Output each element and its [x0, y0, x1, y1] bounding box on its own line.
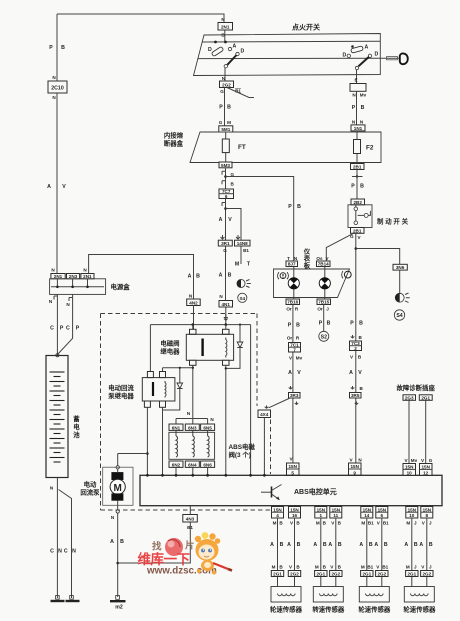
svg-text:6: 6	[225, 194, 228, 199]
svg-text:2B2: 2B2	[353, 200, 362, 205]
svg-text:6: 6	[381, 513, 384, 518]
svg-text:N: N	[187, 411, 191, 416]
svg-text:B: B	[429, 542, 433, 548]
svg-text:内接熔: 内接熔	[164, 131, 184, 140]
svg-text:M: M	[227, 120, 231, 125]
svg-text:B: B	[358, 355, 362, 360]
svg-text:V: V	[358, 235, 362, 240]
svg-text:15N: 15N	[317, 507, 326, 512]
svg-text:2G1: 2G1	[421, 395, 430, 400]
svg-text:B: B	[228, 273, 232, 279]
svg-text:B: B	[297, 204, 301, 210]
svg-text:G: G	[220, 89, 224, 94]
svg-text:2G1: 2G1	[407, 572, 416, 577]
svg-text:M: M	[114, 483, 122, 494]
svg-text:S2: S2	[321, 335, 327, 341]
svg-text:轮速传感器: 轮速传感器	[270, 605, 303, 614]
svg-text:P: P	[350, 321, 354, 327]
svg-text:B: B	[323, 542, 327, 548]
svg-text:V: V	[331, 521, 335, 526]
svg-text:Mv: Mv	[296, 356, 303, 361]
svg-text:P: P	[351, 184, 355, 190]
svg-text:G: G	[429, 458, 433, 463]
svg-text:T: T	[287, 256, 290, 261]
svg-text:5M3: 5M3	[221, 163, 230, 168]
svg-text:2B1: 2B1	[353, 228, 362, 233]
svg-text:P: P	[319, 321, 323, 327]
svg-text:J: J	[429, 521, 432, 526]
svg-text:B: B	[296, 565, 300, 570]
svg-text:B: B	[297, 542, 301, 548]
svg-text:2N1: 2N1	[83, 274, 92, 279]
svg-text:2C10: 2C10	[51, 86, 64, 92]
svg-text:B1: B1	[382, 565, 388, 570]
svg-text:N: N	[58, 549, 62, 555]
svg-text:M: M	[361, 521, 365, 526]
svg-text:N: N	[352, 93, 356, 98]
svg-text:G: G	[219, 120, 223, 125]
svg-text:V: V	[422, 521, 426, 526]
svg-text:12: 12	[423, 471, 429, 476]
svg-text:P: P	[288, 323, 292, 329]
svg-text:电源盒: 电源盒	[111, 282, 131, 291]
svg-text:15N: 15N	[423, 507, 432, 512]
svg-text:4N3: 4N3	[186, 517, 195, 522]
svg-text:轮速传感器: 轮速传感器	[358, 605, 391, 614]
svg-text:V: V	[330, 565, 334, 570]
svg-text:ABS电控单元: ABS电控单元	[294, 487, 337, 496]
svg-text:M: M	[406, 565, 410, 570]
svg-text:7B14: 7B14	[318, 262, 329, 267]
svg-text:6N1: 6N1	[172, 425, 181, 430]
svg-text:1: 1	[320, 513, 323, 518]
svg-text:B: B	[360, 184, 364, 190]
svg-text:B: B	[279, 565, 283, 570]
svg-text:B: B	[338, 521, 342, 526]
svg-text:D: D	[241, 49, 245, 55]
svg-text:J: J	[429, 565, 432, 570]
svg-text:6N3: 6N3	[188, 425, 197, 430]
svg-text:表: 表	[303, 254, 311, 263]
svg-text:15N: 15N	[408, 507, 417, 512]
svg-text:8J7: 8J7	[288, 262, 296, 267]
svg-text:5: 5	[291, 470, 294, 475]
svg-text:C: C	[64, 549, 68, 555]
svg-text:2G2: 2G2	[222, 82, 231, 87]
svg-text:V: V	[325, 256, 329, 261]
svg-text:10: 10	[407, 471, 413, 476]
svg-text:B: B	[227, 105, 231, 111]
svg-text:A: A	[188, 274, 192, 280]
svg-text:16: 16	[292, 513, 298, 518]
svg-text:2B1: 2B1	[353, 165, 362, 170]
svg-text:继电器: 继电器	[160, 347, 180, 356]
svg-text:A: A	[419, 542, 423, 548]
svg-text:片: 片	[185, 540, 195, 552]
svg-text:A: A	[233, 44, 237, 50]
svg-text:B: B	[296, 323, 300, 329]
svg-text:14N8: 14N8	[237, 241, 248, 246]
svg-text:N: N	[358, 458, 362, 463]
svg-text:Mv: Mv	[360, 93, 367, 98]
svg-text:D: D	[343, 53, 347, 59]
svg-text:V: V	[297, 370, 301, 376]
svg-text:J: J	[414, 565, 417, 570]
svg-text:B1: B1	[368, 521, 374, 526]
svg-text:m2: m2	[115, 605, 123, 611]
svg-text:B: B	[327, 321, 331, 327]
svg-text:电磁阀: 电磁阀	[160, 339, 179, 348]
svg-text:B: B	[323, 565, 327, 570]
svg-text:断器盒: 断器盒	[164, 139, 184, 148]
svg-text:2G2: 2G2	[331, 572, 340, 577]
svg-text:N: N	[111, 515, 115, 520]
svg-text:V: V	[404, 458, 408, 463]
svg-text:N: N	[294, 256, 298, 261]
svg-text:M: M	[316, 521, 320, 526]
svg-text:M: M	[235, 262, 239, 268]
svg-text:B: B	[384, 542, 388, 548]
svg-text:A: A	[328, 542, 332, 548]
svg-text:V: V	[421, 565, 425, 570]
svg-text:15N: 15N	[288, 464, 297, 469]
svg-text:电动回流: 电动回流	[108, 383, 134, 392]
svg-text:Mv: Mv	[411, 458, 418, 463]
svg-text:6N6: 6N6	[203, 462, 212, 467]
svg-text:R: R	[296, 336, 300, 341]
svg-text:3N6: 3N6	[396, 265, 405, 270]
svg-text:电动: 电动	[84, 480, 97, 489]
svg-text:Or: Or	[287, 336, 293, 341]
svg-text:2: 2	[354, 346, 357, 351]
svg-text:2G2: 2G2	[422, 572, 431, 577]
svg-text:F2: F2	[366, 144, 374, 151]
svg-text:J: J	[326, 307, 329, 312]
svg-text:制动开关: 制动开关	[377, 217, 410, 226]
svg-text:ABS电磁: ABS电磁	[229, 442, 256, 451]
svg-text:A: A	[374, 542, 378, 548]
svg-text:FT: FT	[238, 144, 246, 151]
svg-text:B: B	[338, 565, 342, 570]
svg-text:V: V	[62, 184, 66, 190]
svg-text:N: N	[52, 95, 56, 100]
svg-text:转速传感器: 转速传感器	[312, 605, 345, 614]
svg-text:V: V	[228, 217, 232, 223]
svg-text:A: A	[219, 217, 223, 223]
svg-text:9: 9	[353, 470, 356, 475]
svg-text:3R5: 3R5	[351, 393, 360, 398]
svg-text:B: B	[360, 386, 364, 391]
svg-text:10: 10	[409, 513, 415, 518]
svg-text:2G2: 2G2	[377, 572, 386, 577]
svg-text:3R1: 3R1	[221, 241, 230, 246]
svg-text:找: 找	[152, 541, 162, 553]
svg-text:A: A	[313, 542, 317, 548]
svg-text:B: B	[359, 321, 363, 327]
svg-text:板: 板	[304, 261, 311, 270]
svg-text:2G1: 2G1	[273, 572, 282, 577]
svg-text:15N: 15N	[273, 507, 282, 512]
svg-text:7B15: 7B15	[318, 300, 329, 305]
svg-text:故障诊断插座: 故障诊断插座	[397, 383, 436, 392]
svg-text:点火开关: 点火开关	[292, 23, 320, 32]
svg-text:B: B	[120, 539, 124, 545]
svg-text:A: A	[359, 542, 363, 548]
svg-text:V: V	[358, 370, 362, 376]
svg-text:M: M	[361, 565, 365, 570]
svg-text:B: B	[280, 542, 284, 548]
svg-text:A: A	[219, 273, 223, 279]
svg-text:Or: Or	[286, 307, 292, 312]
svg-text:B1: B1	[383, 521, 389, 526]
svg-text:A: A	[270, 542, 274, 548]
svg-text:V: V	[289, 356, 293, 361]
svg-text:B: B	[279, 521, 283, 526]
svg-text:7: 7	[293, 348, 296, 353]
svg-text:6N4: 6N4	[188, 462, 197, 467]
svg-text:B: B	[361, 105, 365, 111]
svg-text:P: P	[49, 45, 53, 51]
svg-text:3R3: 3R3	[290, 393, 299, 398]
svg-text:5M1: 5M1	[221, 127, 230, 132]
svg-text:V: V	[290, 521, 294, 526]
svg-text:A: A	[404, 542, 408, 548]
svg-text:N: N	[352, 120, 356, 125]
svg-text:V: V	[350, 355, 354, 360]
svg-text:15N: 15N	[290, 507, 299, 512]
svg-text:M: M	[273, 521, 277, 526]
svg-text:Or: Or	[317, 307, 323, 312]
svg-text:M: M	[315, 565, 319, 570]
svg-text:J: J	[414, 521, 417, 526]
svg-text:11: 11	[333, 513, 338, 518]
svg-text:D: D	[208, 47, 212, 53]
svg-text:T: T	[247, 262, 251, 268]
svg-text:R: R	[295, 307, 299, 312]
svg-text:M: M	[272, 565, 276, 570]
svg-text:C: C	[50, 549, 54, 555]
svg-text:B1: B1	[243, 248, 249, 253]
svg-text:N: N	[52, 75, 56, 80]
svg-text:B: B	[323, 521, 327, 526]
svg-text:N: N	[72, 549, 76, 555]
svg-text:N: N	[49, 299, 53, 304]
svg-text:C: C	[66, 326, 70, 332]
svg-text:15N: 15N	[378, 507, 387, 512]
svg-text:A: A	[349, 370, 353, 376]
svg-text:B: B	[231, 182, 235, 187]
svg-text:S4: S4	[396, 313, 402, 319]
svg-text:B: B	[359, 335, 363, 340]
svg-text:2N1: 2N1	[54, 274, 63, 279]
svg-text:N: N	[219, 294, 223, 299]
svg-text:蓄: 蓄	[73, 414, 80, 423]
svg-text:A: A	[47, 184, 51, 190]
svg-text:15N: 15N	[421, 464, 430, 469]
svg-text:N: N	[221, 17, 225, 22]
svg-text:15N: 15N	[350, 464, 359, 469]
svg-text:B: B	[414, 542, 418, 548]
svg-text:C: C	[50, 326, 54, 332]
svg-text:15N: 15N	[363, 507, 372, 512]
svg-text:15N: 15N	[332, 507, 341, 512]
svg-text:6N5: 6N5	[203, 425, 212, 430]
svg-text:G: G	[223, 248, 227, 253]
svg-text:4X4: 4X4	[260, 412, 269, 417]
svg-text:V: V	[289, 565, 293, 570]
svg-text:D: D	[375, 52, 379, 58]
svg-text:仪: 仪	[303, 248, 311, 256]
svg-text:4N2: 4N2	[189, 300, 198, 305]
svg-text:P: P	[60, 326, 64, 332]
svg-text:N: N	[50, 486, 54, 491]
svg-text:池: 池	[73, 430, 80, 439]
svg-text:B: B	[61, 45, 65, 51]
svg-text:N: N	[210, 417, 214, 422]
svg-text:14: 14	[364, 513, 370, 518]
svg-text:A: A	[365, 45, 369, 51]
svg-text:P: P	[352, 105, 356, 111]
svg-text:B1: B1	[367, 565, 373, 570]
svg-text:N: N	[360, 120, 364, 125]
svg-text:2G1: 2G1	[316, 572, 325, 577]
svg-text:N: N	[83, 268, 87, 273]
svg-text:2N1: 2N1	[221, 25, 230, 30]
svg-text:1N1: 1N1	[354, 126, 363, 131]
svg-text:2G2: 2G2	[290, 572, 299, 577]
svg-text:泵继电器: 泵继电器	[107, 391, 134, 400]
svg-text:Os: Os	[316, 256, 323, 261]
svg-text:4N1: 4N1	[221, 302, 230, 307]
svg-text:回流泵: 回流泵	[80, 488, 100, 497]
svg-text:V: V	[421, 458, 425, 463]
svg-text:N: N	[189, 294, 193, 299]
svg-text:B: B	[196, 274, 200, 280]
svg-text:阀(3 个): 阀(3 个)	[229, 450, 251, 459]
svg-text:B: B	[296, 521, 300, 526]
svg-text:15N: 15N	[405, 464, 414, 469]
svg-text:A: A	[287, 542, 291, 548]
svg-text:N: N	[66, 302, 70, 307]
svg-text:V: V	[377, 521, 381, 526]
svg-text:S4: S4	[239, 296, 245, 301]
svg-text:E: E	[354, 78, 357, 83]
svg-text:A: A	[110, 539, 114, 545]
svg-text:A: A	[288, 370, 292, 376]
svg-text:N: N	[51, 268, 55, 273]
svg-text:8: 8	[426, 513, 429, 518]
svg-text:B: B	[338, 542, 342, 548]
svg-text:V: V	[376, 565, 380, 570]
svg-text:V: V	[349, 458, 353, 463]
svg-text:2G1: 2G1	[362, 572, 371, 577]
svg-text:P: P	[288, 204, 292, 210]
svg-text:2N3: 2N3	[69, 274, 78, 279]
svg-text:B: B	[369, 542, 373, 548]
svg-text:P: P	[76, 326, 80, 332]
svg-text:7B16: 7B16	[287, 300, 298, 305]
svg-text:M: M	[406, 521, 410, 526]
svg-text:轮速传感器: 轮速传感器	[403, 605, 436, 614]
svg-text:P: P	[219, 105, 223, 111]
svg-text:B1: B1	[187, 525, 193, 530]
svg-text:2G3: 2G3	[405, 395, 414, 400]
svg-text:电: 电	[73, 422, 80, 431]
svg-text:4: 4	[276, 513, 279, 518]
svg-text:6N2: 6N2	[172, 462, 181, 467]
